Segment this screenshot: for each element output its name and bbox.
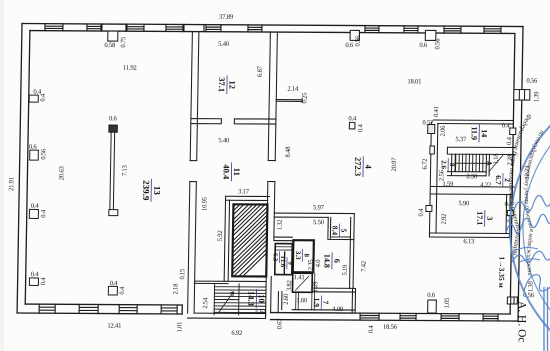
svg-text:12: 12 [227,81,237,90]
svg-text:2.6: 2.6 [440,160,448,169]
svg-text:2.54: 2.54 [202,297,209,309]
svg-text:1.01: 1.01 [176,322,183,333]
svg-text:8.4: 8.4 [330,226,339,236]
svg-text:21.91: 21.91 [8,177,15,191]
svg-text:5.90: 5.90 [458,200,470,207]
svg-text:2.06: 2.06 [440,125,447,137]
svg-text:0.56: 0.56 [354,35,361,47]
svg-text:2.92: 2.92 [441,214,448,225]
svg-text:11.92: 11.92 [123,65,137,72]
svg-text:4.09: 4.09 [332,306,344,313]
svg-text:0.6: 0.6 [109,115,118,122]
svg-text:0.6: 0.6 [29,144,38,151]
svg-text:6.72: 6.72 [422,159,429,170]
svg-text:0.4: 0.4 [502,122,511,129]
svg-text:1.41: 1.41 [294,274,305,281]
svg-text:14.8: 14.8 [322,254,331,268]
svg-text:6.13: 6.13 [463,238,475,245]
svg-text:40.4: 40.4 [221,164,231,180]
svg-text:13: 13 [152,186,162,196]
svg-text:5.50: 5.50 [313,219,325,226]
svg-text:0.4: 0.4 [40,209,47,218]
svg-text:5.40: 5.40 [218,41,230,48]
svg-text:4.0: 4.0 [315,259,322,268]
svg-text:6: 6 [332,259,341,263]
svg-text:18.56: 18.56 [383,324,398,331]
svg-text:0.56: 0.56 [434,38,441,50]
svg-text:3.3: 3.3 [294,251,302,260]
svg-text:1.29: 1.29 [312,281,319,293]
svg-text:0.75: 0.75 [120,36,127,48]
svg-text:37.89: 37.89 [219,14,234,21]
svg-text:0.4: 0.4 [348,115,357,122]
svg-text:7.13: 7.13 [121,165,128,177]
svg-text:0.4: 0.4 [40,93,47,102]
svg-text:0.4: 0.4 [40,277,47,286]
svg-text:5.64: 5.64 [255,309,267,316]
svg-text:3.17: 3.17 [238,188,250,195]
svg-text:2.35: 2.35 [307,259,314,271]
svg-text:1.9: 1.9 [312,298,321,308]
svg-text:0.58: 0.58 [104,42,116,49]
svg-text:8: 8 [448,163,456,167]
svg-text:10.95: 10.95 [201,196,208,211]
svg-text:А. Н. Ос: А. Н. Ос [516,301,528,343]
svg-text:0.4: 0.4 [418,208,425,217]
svg-text:0.56: 0.56 [526,78,538,85]
svg-text:0.67: 0.67 [276,318,283,330]
svg-text:1→3.35 м: 1→3.35 м [497,256,507,287]
svg-text:2.14: 2.14 [287,86,299,93]
svg-text:2.18: 2.18 [172,283,179,295]
svg-text:6.7: 6.7 [494,175,503,185]
svg-text:0.6: 0.6 [419,42,428,49]
svg-text:0.4: 0.4 [119,286,126,295]
svg-text:0.4: 0.4 [506,136,513,145]
svg-text:8.48: 8.48 [285,146,292,158]
svg-text:14: 14 [480,129,489,137]
svg-text:1.60: 1.60 [296,297,308,304]
svg-text:0.25: 0.25 [301,92,308,104]
svg-text:0.4: 0.4 [357,124,364,133]
svg-text:17.1: 17.1 [475,211,484,225]
svg-text:0.56: 0.56 [40,148,47,160]
svg-text:0.4: 0.4 [368,325,375,334]
svg-text:0.52: 0.52 [422,119,433,126]
svg-text:2.56: 2.56 [438,169,445,181]
svg-text:272.3: 272.3 [353,157,363,176]
svg-text:1.39: 1.39 [533,91,540,103]
svg-text:6.3: 6.3 [271,253,278,262]
svg-text:20.97: 20.97 [391,157,398,172]
svg-text:37.1: 37.1 [217,77,227,92]
svg-text:20.63: 20.63 [58,166,65,181]
svg-text:0.4: 0.4 [31,203,40,210]
svg-text:2.50: 2.50 [466,173,478,180]
svg-text:6.87: 6.87 [257,65,264,77]
svg-text:18.01: 18.01 [407,78,421,85]
svg-text:7.42: 7.42 [360,261,367,272]
svg-text:14.3: 14.3 [246,291,256,306]
svg-text:1.6: 1.6 [279,259,286,268]
svg-text:3.82: 3.82 [286,280,293,291]
svg-text:5.37: 5.37 [455,136,467,143]
svg-text:8: 8 [303,253,311,257]
svg-text:10: 10 [257,294,267,303]
svg-text:4.22: 4.22 [480,182,491,189]
svg-text:0.4: 0.4 [31,271,40,278]
svg-text:5.92: 5.92 [217,230,224,241]
svg-text:2.60: 2.60 [283,293,290,305]
svg-text:0.41: 0.41 [433,106,440,117]
svg-text:1.05: 1.05 [444,297,451,309]
svg-text:0.6: 0.6 [345,42,354,49]
svg-text:11: 11 [232,168,242,176]
svg-text:5.97: 5.97 [313,204,325,211]
svg-text:0.4: 0.4 [110,280,119,287]
svg-text:6.92: 6.92 [231,330,242,337]
svg-text:11.9: 11.9 [470,126,479,140]
svg-text:5: 5 [339,229,348,233]
svg-text:12.41: 12.41 [107,323,121,330]
svg-text:5.40: 5.40 [218,137,230,144]
svg-text:0.6: 0.6 [427,292,436,299]
svg-text:239.9: 239.9 [141,180,151,201]
svg-text:0.15: 0.15 [179,268,186,280]
svg-text:3: 3 [485,216,494,220]
svg-text:1.32: 1.32 [277,220,284,231]
svg-text:1.18: 1.18 [493,153,500,165]
svg-text:7: 7 [321,300,330,304]
svg-text:5.19: 5.19 [342,264,349,276]
